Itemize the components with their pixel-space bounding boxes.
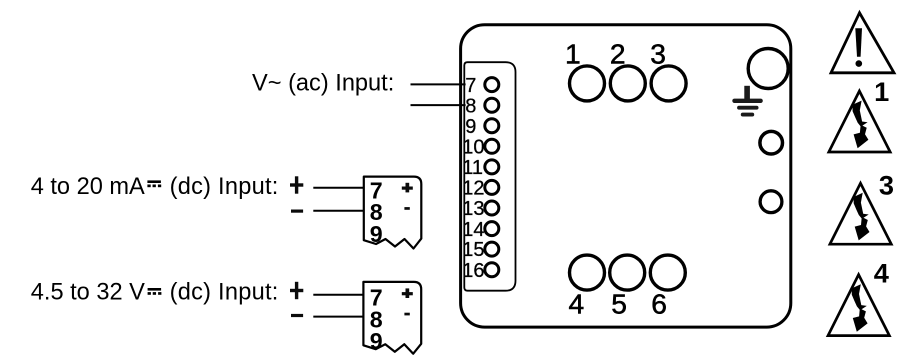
svg-text:10: 10 [462, 137, 484, 159]
svg-text:1: 1 [874, 76, 889, 107]
svg-text:6: 6 [651, 288, 667, 320]
svg-text:13: 13 [462, 198, 484, 220]
svg-text:4 to 20 mA: 4 to 20 mA [31, 174, 145, 200]
svg-text:(dc) Input:: (dc) Input: [170, 174, 279, 200]
svg-text:12: 12 [462, 178, 484, 200]
svg-text:4: 4 [874, 258, 889, 289]
svg-text:9: 9 [370, 221, 383, 247]
svg-text:4.5 to 32 V: 4.5 to 32 V [31, 280, 145, 306]
svg-text:8: 8 [465, 95, 476, 117]
svg-text:3: 3 [650, 37, 666, 69]
svg-text:4: 4 [569, 288, 585, 320]
svg-text:3: 3 [879, 170, 894, 201]
svg-text:16: 16 [462, 260, 484, 282]
svg-text:14: 14 [462, 219, 484, 241]
svg-text:2: 2 [610, 37, 626, 69]
svg-text:7: 7 [465, 75, 476, 97]
svg-text:9: 9 [465, 116, 476, 138]
svg-text:9: 9 [370, 328, 383, 354]
svg-text:5: 5 [611, 288, 627, 320]
svg-text:1: 1 [565, 37, 581, 69]
svg-text:(dc) Input:: (dc) Input: [170, 280, 279, 306]
svg-text:V~ (ac) Input:: V~ (ac) Input: [252, 70, 394, 96]
svg-text:15: 15 [462, 239, 484, 261]
svg-text:11: 11 [462, 157, 483, 179]
